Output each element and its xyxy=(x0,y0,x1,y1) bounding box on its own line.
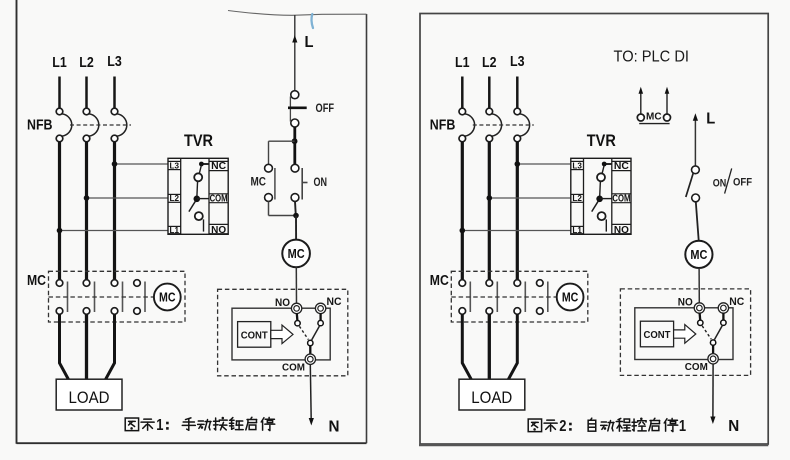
NO contact stem and circle (fig2) xyxy=(698,313,703,326)
svg-text:COM: COM xyxy=(282,362,305,374)
terminal block dashed enclosure (fig2) xyxy=(620,289,750,376)
wire L2 incoming (fig1) xyxy=(85,77,88,109)
svg-text:LOAD: LOAD xyxy=(471,388,512,407)
svg-text:NC: NC xyxy=(327,296,342,308)
TVR contact arm to COM (fig2) xyxy=(599,181,602,197)
svg-text:TVR: TVR xyxy=(587,132,616,150)
contactor MC dashed enclosure (fig1) xyxy=(49,271,186,322)
wire coil to NO terminal (fig2) xyxy=(698,268,700,303)
svg-text:L3: L3 xyxy=(572,160,582,170)
wire L1 NFB to contactor (fig2) xyxy=(461,142,464,280)
svg-text:L2: L2 xyxy=(482,55,497,71)
contactor MC pole aux (fig2) xyxy=(537,280,548,315)
dashed blade NO-COM (fig1) xyxy=(299,326,308,339)
svg-text:L1: L1 xyxy=(52,55,67,71)
coil MC (fig2) xyxy=(685,241,712,268)
junction node L3-TVR (fig2) xyxy=(515,161,521,167)
svg-text:L2: L2 xyxy=(79,55,94,71)
terminal NO ring (fig2) xyxy=(694,303,704,313)
svg-text:NC: NC xyxy=(614,160,629,172)
svg-text:MC: MC xyxy=(159,291,176,305)
contactor MC pole main 2 (fig2) xyxy=(486,280,497,315)
svg-text:L1: L1 xyxy=(170,225,180,235)
contactor linkage dashed line (fig2) xyxy=(451,296,556,298)
wire L drop with arrow (fig2) xyxy=(693,113,698,166)
circuit breaker NFB pole 3 (fig2) xyxy=(514,108,530,142)
timer relay TVR body (fig2) xyxy=(571,158,631,234)
wire L2 NFB to contactor (fig1) xyxy=(85,142,88,280)
timer relay TVR body (fig1) xyxy=(168,158,228,234)
wire L3 NFB to contactor (fig1) xyxy=(113,142,116,280)
circuit breaker NFB pole 1 (fig2) xyxy=(459,108,475,142)
wire L2 incoming (fig2) xyxy=(488,77,491,109)
svg-text:NO: NO xyxy=(275,297,290,309)
svg-text:OFF: OFF xyxy=(733,177,752,189)
connector terminal circle 2 (fig2) xyxy=(664,114,671,121)
wire L1 NFB to contactor (fig1) xyxy=(58,142,61,280)
svg-text:2: 2 xyxy=(559,418,566,435)
wire L3 NFB to contactor (fig2) xyxy=(516,142,519,280)
svg-text:OFF: OFF xyxy=(316,103,335,115)
contactor MC pole main 2 (fig1) xyxy=(83,280,94,315)
wire MC contact to bottom junction (fig1) xyxy=(269,201,297,215)
contactor MC pole main 3 (fig2) xyxy=(514,280,525,315)
junction node L2-TVR (fig2) xyxy=(487,195,493,201)
wire L1 to LOAD (fig1) xyxy=(60,314,69,379)
svg-text:1: 1 xyxy=(156,417,164,434)
wire tap L2 to TVR (fig1) xyxy=(87,197,169,199)
caption text: figure 2 caption 图示2：自动程控启停1 xyxy=(528,417,686,434)
junction node L3-TVR (fig1) xyxy=(112,161,118,167)
TVR moving blade (fig2) xyxy=(592,201,599,211)
wire switch to coil (fig2) xyxy=(696,202,699,241)
TVR internal contact NC side (fig1) xyxy=(199,162,209,174)
wire L2 to LOAD (fig1) xyxy=(85,314,88,385)
arrow up L supply (fig1) xyxy=(292,35,297,43)
contactor coil MC (fig1) xyxy=(154,284,181,311)
TVR internal contact NC side (fig2) xyxy=(602,162,612,174)
svg-text:L2: L2 xyxy=(572,193,582,203)
circuit breaker NFB pole 2 (fig2) xyxy=(486,108,502,142)
TVR contact hinge circle upper (fig1) xyxy=(194,173,202,181)
load box LOAD (fig2) xyxy=(459,379,525,410)
pushbutton OFF (fig1) xyxy=(288,91,307,127)
wire COM to neutral N (fig2) xyxy=(712,364,714,418)
pushbutton ON (fig1) xyxy=(291,164,307,201)
svg-text:MC: MC xyxy=(690,247,708,262)
dashed blade NO-COM (fig2) xyxy=(702,326,711,339)
wire tap L1 to TVR (fig2) xyxy=(462,230,571,232)
wire tap L3 to TVR (fig2) xyxy=(517,163,571,165)
wire OFF to ON bold segment (fig1) xyxy=(293,127,296,165)
wire COM to neutral N (fig1) xyxy=(309,364,312,419)
terminal COM ring (fig2) xyxy=(708,354,718,364)
svg-text:N: N xyxy=(329,419,340,436)
TVR contact hinge circle upper (fig2) xyxy=(597,173,605,181)
junction node L2-TVR (fig1) xyxy=(84,195,90,201)
arrow down to N (fig1) xyxy=(309,418,314,426)
svg-text:L1: L1 xyxy=(455,55,470,71)
svg-text:NO: NO xyxy=(678,297,693,309)
svg-text:NO: NO xyxy=(211,224,226,236)
solid blade NC-COM (fig2) xyxy=(715,326,723,340)
svg-text:NC: NC xyxy=(729,296,744,308)
wire tap L3 to TVR (fig1) xyxy=(115,163,169,165)
svg-text:ON: ON xyxy=(314,177,328,189)
svg-text:NC: NC xyxy=(211,160,226,172)
controller box CONT (fig1) xyxy=(238,322,271,348)
coil MC (fig1) xyxy=(282,240,310,268)
panel 2 bottom thick edge xyxy=(419,444,768,446)
circuit breaker NFB pole 2 (fig1) xyxy=(83,108,99,142)
NC contact stem and circle (fig2) xyxy=(721,313,726,326)
panel 1 frame border xyxy=(17,0,367,444)
connector terminal circle 1 (fig2) xyxy=(637,114,644,121)
TVR COM node (fig2) xyxy=(596,196,612,203)
TVR contact arm to COM (fig1) xyxy=(196,181,199,197)
circuit breaker NFB pole 1 (fig1) xyxy=(56,108,72,142)
panel 2 frame border xyxy=(420,14,768,445)
contactor MC pole aux (fig1) xyxy=(134,280,145,315)
wire L2 NFB to contactor (fig2) xyxy=(488,142,491,280)
svg-text:MC: MC xyxy=(251,177,267,189)
svg-text:COM: COM xyxy=(685,361,708,373)
svg-text:L: L xyxy=(305,34,314,51)
junction node L1-TVR (fig1) xyxy=(57,228,63,234)
TVR COM node (fig1) xyxy=(194,196,210,203)
NFB linkage dashed line (fig2) xyxy=(473,124,534,126)
svg-text:MC: MC xyxy=(646,110,662,122)
contactor MC pole main 3 (fig1) xyxy=(111,280,122,315)
toggle switch ON/OFF (fig2) xyxy=(686,166,700,202)
svg-text:MC: MC xyxy=(430,273,449,289)
NFB linkage dashed line (fig1) xyxy=(70,124,131,126)
terminal COM ring (fig1) xyxy=(305,354,315,364)
svg-text:L: L xyxy=(706,110,715,127)
TVR NO side wire (fig2) xyxy=(605,219,607,231)
NC contact stem and circle (fig1) xyxy=(318,313,323,326)
terminal NC ring (fig1) xyxy=(315,303,325,313)
svg-text:MC: MC xyxy=(562,291,579,305)
svg-text:1: 1 xyxy=(679,418,687,435)
block arrow CONT output (fig1) xyxy=(271,325,293,344)
svg-text:TO: PLC DI: TO: PLC DI xyxy=(614,49,690,66)
wire ON to bottom junction (fig1) xyxy=(294,201,297,215)
TVR contact hinge circle lower (fig1) xyxy=(195,212,203,220)
block arrow CONT output (fig2) xyxy=(674,325,696,344)
label ON/OFF (fig2) xyxy=(713,168,752,193)
junction node above ON (fig1) xyxy=(292,138,298,144)
NO contact stem and circle (fig1) xyxy=(295,313,300,326)
underline MC connector (fig2) xyxy=(639,123,669,125)
wire L3 to LOAD (fig1) xyxy=(106,314,115,379)
COM contact circle and stem (fig1) xyxy=(308,340,313,354)
wire tap L2 to TVR (fig2) xyxy=(489,197,571,199)
wire L1 incoming (fig1) xyxy=(58,77,61,109)
wire L1 to LOAD (fig2) xyxy=(462,314,471,379)
TVR contact hinge circle lower (fig2) xyxy=(598,212,606,220)
terminal NC ring (fig2) xyxy=(718,303,728,313)
svg-text:N: N xyxy=(728,418,739,435)
relay output inner box (fig1) xyxy=(232,308,330,360)
wire L3 incoming (fig2) xyxy=(516,77,519,109)
wire L3 to LOAD (fig2) xyxy=(508,314,517,379)
contactor coil MC (fig2) xyxy=(557,284,584,311)
wire coil to NO terminal (fig1) xyxy=(295,267,297,303)
contactor MC pole main 1 (fig1) xyxy=(56,280,67,315)
wire L3 incoming (fig1) xyxy=(113,77,116,109)
terminal block dashed enclosure (fig1) xyxy=(218,289,348,376)
arrow down to N (fig2) xyxy=(710,417,715,425)
svg-text:L2: L2 xyxy=(170,193,180,203)
TVR NO side wire (fig1) xyxy=(203,219,205,231)
wire L supply drop (fig1) xyxy=(294,15,296,91)
svg-text:NFB: NFB xyxy=(430,117,456,134)
relay output inner box (fig2) xyxy=(635,308,733,360)
controller box CONT (fig2) xyxy=(640,321,673,347)
svg-text:MC: MC xyxy=(27,273,46,289)
svg-text:L3: L3 xyxy=(107,54,122,70)
svg-text:LOAD: LOAD xyxy=(69,388,110,407)
wire junction to coil (fig1) xyxy=(295,216,297,240)
TVR moving blade (fig1) xyxy=(189,201,196,211)
wire L2 to LOAD (fig2) xyxy=(488,314,491,385)
COM contact circle and stem (fig2) xyxy=(710,340,715,354)
contactor MC dashed enclosure (fig2) xyxy=(451,271,588,322)
blue pen mark artifact xyxy=(311,14,313,28)
wire L1 incoming (fig2) xyxy=(461,77,464,109)
svg-text:NO: NO xyxy=(614,224,629,236)
terminal NO ring (fig1) xyxy=(291,303,301,313)
solid blade NC-COM (fig1) xyxy=(312,326,320,340)
svg-text:MC: MC xyxy=(288,246,306,261)
svg-text:CONT: CONT xyxy=(644,329,672,341)
connector to PLC wire 2 with arrow (fig2) xyxy=(665,87,670,114)
auxiliary contact MC (fig1) xyxy=(265,164,275,201)
svg-text:ON: ON xyxy=(713,177,727,189)
svg-text:COM: COM xyxy=(210,194,228,205)
svg-text:L1: L1 xyxy=(572,225,582,235)
junction node L1-TVR (fig2) xyxy=(460,228,466,234)
svg-text:NFB: NFB xyxy=(27,117,53,134)
circuit breaker NFB pole 3 (fig1) xyxy=(111,108,127,142)
junction node below ON (fig1) xyxy=(293,213,299,219)
connector to PLC wire 1 with arrow (fig2) xyxy=(639,87,644,114)
load box LOAD (fig1) xyxy=(56,379,122,410)
wire tap L1 to TVR (fig1) xyxy=(60,230,169,232)
svg-text:CONT: CONT xyxy=(241,329,269,341)
svg-text:COM: COM xyxy=(612,194,630,205)
contactor MC pole main 1 (fig2) xyxy=(459,280,470,315)
caption text: figure 1 caption 图示1：手动按钮启停 xyxy=(125,417,275,434)
contactor linkage dashed line (fig1) xyxy=(49,296,154,298)
svg-text:TVR: TVR xyxy=(184,132,213,150)
wire branch to MC contact (fig1) xyxy=(269,141,295,164)
svg-text:L3: L3 xyxy=(170,160,180,170)
svg-text:L3: L3 xyxy=(510,54,525,70)
